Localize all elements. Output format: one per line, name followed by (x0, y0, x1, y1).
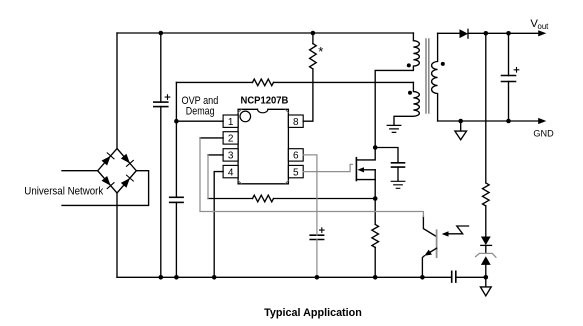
wire drain snubber branch (375, 148, 398, 163)
wire pin1 demag (176, 120, 223, 122)
wire bulk cap top (160, 33, 162, 102)
U1 pin 2 box (223, 132, 238, 144)
svg-text:8: 8 (293, 117, 299, 128)
wire demag line (176, 81, 252, 83)
wire pin6 VCC (303, 155, 317, 235)
wire top HV rail (117, 32, 413, 34)
wire demag line to aux winding (274, 81, 414, 83)
capacitor drain snubber C3 (392, 163, 405, 167)
bridge diode D1 top-left (102, 156, 111, 166)
U1 pin 5 box (288, 165, 303, 177)
resistor CS filter R2 (253, 195, 274, 202)
svg-text:GND: GND (533, 128, 553, 139)
svg-text:5: 5 (293, 167, 299, 178)
wire OVP cap bottom (175, 202, 177, 277)
wire pin2 FB stub (200, 137, 223, 139)
svg-text:2: 2 (228, 134, 234, 145)
capacitor output C4 (+) (502, 76, 516, 82)
capacitor Y-cap C5 (452, 271, 456, 282)
U1 pin 1 box (223, 115, 238, 127)
wire sense resistor to rail (374, 247, 376, 277)
transistor Q2 opto collector (423, 216, 436, 236)
T1 aux phase dot (408, 91, 412, 95)
wire CS line to sense node (274, 198, 376, 200)
transformer T1 aux winding (394, 82, 419, 125)
ground secondary 2 (open triangle) (485, 277, 487, 287)
transistor Q1 MOSFET channel bar (355, 158, 357, 181)
wire pin4 ground (214, 172, 223, 278)
wire AC input line 2 (62, 171, 149, 206)
transformer T1 secondary winding (432, 33, 438, 121)
U1 pin1 indicator circle (240, 111, 251, 122)
wire VCC cap to rail (316, 240, 318, 278)
pin numbers (228, 117, 299, 178)
U1 pin 3 box (223, 149, 238, 161)
Q1 body arrow (364, 169, 376, 171)
U1 corner bevels (238, 109, 288, 184)
bridge diode D4 bottom-right (121, 178, 130, 188)
wire AC input line 1 (62, 170, 98, 172)
wire secondary top to diode (438, 32, 460, 34)
T1 core (426, 39, 429, 113)
Vout arrow (538, 30, 546, 36)
svg-text:4: 4 (228, 167, 234, 178)
Q1 drain (356, 148, 375, 160)
ground earth (snubber) (391, 181, 405, 188)
U1 pin 8 box (288, 115, 303, 127)
wire pin3 CS stub (208, 154, 223, 156)
wire pin2 FB loop (200, 138, 423, 217)
wire OVP left vertical (175, 82, 177, 197)
resistor current sense R4 (372, 224, 379, 247)
wire bridge minus vertical (116, 193, 118, 277)
capacitor bulk C1 (+) (154, 101, 168, 103)
svg-text:*: * (318, 44, 323, 59)
U1 notch (258, 109, 268, 113)
svg-text:1: 1 (228, 117, 234, 128)
wire bottom ground rail (left of Y-cap) (117, 276, 452, 278)
zener D7 bar (476, 253, 496, 257)
svg-text:Demag: Demag (186, 105, 215, 117)
opto light arrow (448, 226, 469, 234)
wire sense node to resistor (374, 199, 376, 225)
Q2 base bar (436, 230, 438, 257)
capacitor VCC C6 (+) (310, 235, 323, 239)
wire bottom ground rail (right of Y-cap) (456, 276, 486, 278)
wire pin3 vertical (207, 155, 209, 199)
svg-text:Universal Network: Universal Network (24, 185, 104, 197)
transformer T1 primary winding (375, 33, 419, 148)
GND arrow (538, 118, 546, 124)
op-amp U1 NCP1207B body (238, 109, 288, 184)
resistor startup R3 (*) (310, 44, 317, 69)
bridge diode D2 top-right (121, 154, 130, 164)
wire pin8 HV (303, 69, 313, 121)
svg-text:Typical Application: Typical Application (264, 307, 362, 319)
wire pin5 gate (303, 164, 352, 171)
ground secondary (open triangle) (460, 121, 462, 131)
Q2 emitter (430, 248, 437, 252)
U1 pin 6 box (288, 149, 303, 161)
wire output cap top (508, 33, 510, 75)
wire pin3 CS line (208, 198, 253, 200)
T1 primary phase dot (407, 63, 411, 67)
T1 secondary phase dot (441, 62, 445, 66)
wire feedback from Vout node (485, 33, 487, 183)
wire output cap bottom (508, 82, 510, 122)
ground earth (aux) (387, 125, 401, 132)
svg-text:NCP1207B: NCP1207B (241, 95, 289, 106)
bridge rectifier D1-D4 diamond (98, 149, 137, 194)
wire output line (468, 32, 540, 34)
wire fb resistor to LED (485, 206, 487, 237)
svg-text:6: 6 (293, 151, 299, 162)
wire bulk cap bottom (160, 107, 162, 278)
resistor demag R1 (253, 79, 274, 86)
diode opto LED D6 (481, 237, 491, 246)
wire left input vertical (116, 33, 118, 149)
diode output rectifier D5 (460, 29, 469, 38)
junction dots (159, 31, 164, 36)
wire secondary ground line (438, 120, 540, 122)
svg-text:out: out (538, 22, 550, 31)
Q1 source (356, 179, 375, 181)
svg-text:3: 3 (228, 151, 234, 162)
U1 pin 4 box (223, 165, 238, 177)
wire source down to sense node (374, 170, 376, 199)
capacitor OVP timing C2 (170, 196, 183, 198)
resistor feedback R5 (483, 183, 490, 206)
bridge diode D3 bottom-left (102, 176, 111, 186)
